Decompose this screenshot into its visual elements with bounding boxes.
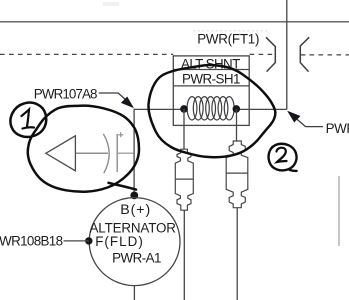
dashed harness line middle segment [250,53,275,55]
regulator triangle inside alternator detail [46,136,76,171]
shunt box divider 1 [173,69,249,71]
shunt box outline [173,56,249,126]
annotation ellipse 2 [148,65,275,157]
capacitor curved plate [103,134,109,174]
pen gap on ellipse 2 [266,144,269,147]
svg-text:PWR1: PWR1 [326,121,349,136]
svg-text:ALTERNATOR: ALTERNATOR [90,220,177,235]
wire alternator bottom [133,285,135,300]
annotation circle 2 [269,144,297,171]
junction dot shunt right [233,105,241,113]
wire shunt left down to fuse F1 [183,109,185,150]
digit 1 handwritten [22,110,35,129]
digit 2 handwritten [277,148,287,162]
top bus line [0,21,349,23]
leader line PWR107A8 [99,93,128,102]
svg-text:PWR-SH1: PWR-SH1 [182,71,240,86]
fuse F2 body (right inline fuse) [226,141,248,208]
capacitor plus sign [118,132,123,137]
wire vertical corner down to B(+) [133,109,135,196]
svg-text:PWR107A8: PWR107A8 [34,87,97,102]
connector bracket left-facing [300,37,309,71]
grey page edge line right [338,176,340,246]
svg-text:B(+): B(+) [120,202,151,218]
arrowhead PWR107A8 [122,97,133,107]
leader line PWR right [297,119,323,126]
wire field terminal left [64,240,89,242]
wire vertical feed PWR at x=287 [286,0,288,109]
lead capacitor to vertical wire [117,152,134,154]
wire from corner to shunt left [134,108,184,110]
alternator circle PWR-A1 [89,198,180,286]
junction dot shunt left [180,105,188,113]
capacitor straight plate [116,134,118,172]
lead from triangle to capacitor [75,152,108,154]
fuse F1 body (left inline fuse) [175,149,193,210]
faint smudge top center [103,2,119,6]
arrowhead PWR right [288,112,299,122]
wire fuse F1 bottom [183,210,185,300]
annotation ellipse 1 [28,106,139,192]
wire shunt right down to fuse F2 [236,109,238,141]
junction dot B(+) [130,192,138,200]
connector bracket right-facing [266,37,275,71]
svg-text:PWR-A1: PWR-A1 [112,250,161,265]
dashed harness line right segment [301,54,306,56]
faint dotted remnant row [193,30,268,32]
svg-text:PWR(FT1): PWR(FT1) [197,32,259,47]
svg-text:PWR108B18: PWR108B18 [0,234,63,249]
junction dot F(FLD) [85,237,92,244]
svg-text:F(FLD): F(FLD) [95,234,144,249]
annotation circle 1 [10,103,46,137]
shunt coil PWR-SH1 [187,97,234,120]
wire shunt right to vertical feed [236,108,286,110]
shunt box divider 2 [173,85,249,87]
wire fuse F2 bottom [236,208,238,300]
dashed harness line left segment [0,53,173,55]
